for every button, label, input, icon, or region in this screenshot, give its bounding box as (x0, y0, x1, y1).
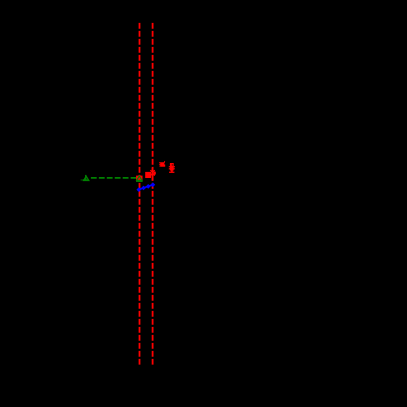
diamond 4 (151, 182, 156, 187)
red blob right of star (154, 172, 156, 176)
green left marker: dim left smear (81, 179, 83, 180)
diamond 1 (136, 187, 141, 192)
diamond 2 (141, 186, 146, 191)
diamond 3 (146, 184, 151, 189)
red square marker under right triangle (136, 176, 142, 182)
green right marker: triangle (hollow) (137, 176, 142, 180)
green left marker: vertical error line (85, 175, 87, 181)
red glyph B (169, 163, 175, 173)
red dashed vertical line 2 (152, 23, 154, 365)
green right marker: bottom cap (136, 180, 142, 182)
green left marker: bottom cap (83, 179, 89, 181)
red glyph A (159, 161, 165, 167)
red dashed vertical line 1 (139, 23, 141, 365)
red square marker 2 (145, 172, 151, 178)
blue line with diamond markers (139, 185, 153, 190)
red star marker (asterisk) (150, 170, 154, 176)
red vertical error bar through star (152, 168, 154, 181)
dark spot inside glyph B (172, 164, 173, 166)
green dashed horizontal line (89, 177, 140, 179)
green left marker: triangle (hollow) (84, 176, 89, 180)
